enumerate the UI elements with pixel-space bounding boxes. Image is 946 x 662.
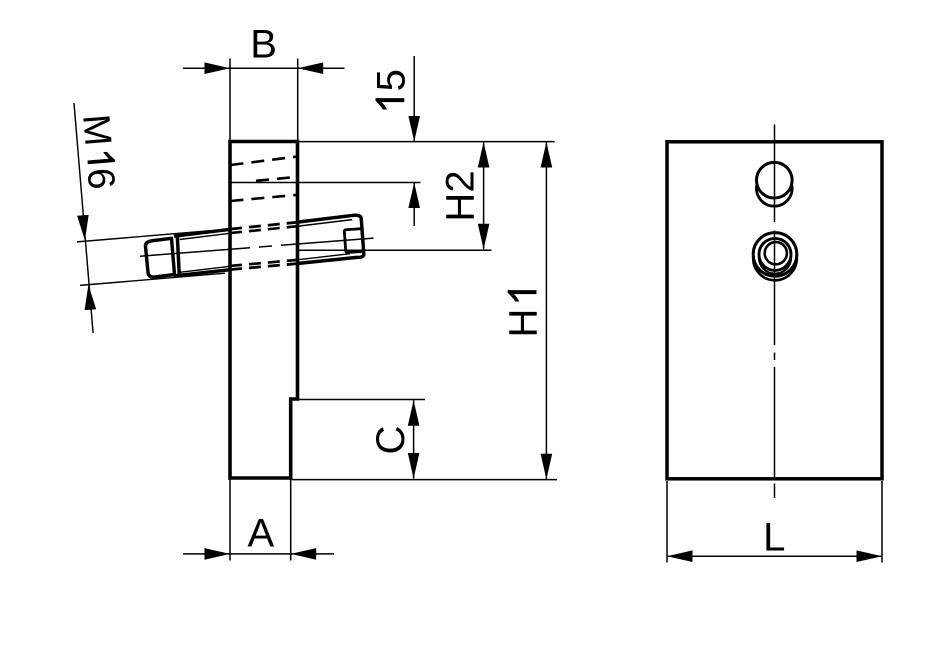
M16 arrow lower: [85, 285, 97, 310]
M16 dimension line: [74, 103, 93, 333]
H2 bottom extension line: [298, 249, 492, 251]
C arrow top: [408, 400, 420, 426]
L arrow right: [857, 550, 883, 562]
front view vertical centerline: [774, 125, 776, 223]
B extension line right: [297, 59, 299, 142]
H2 dimension line: [483, 142, 485, 249]
threaded hole middle exit arc: [759, 256, 791, 274]
thread root line left bottom: [180, 266, 231, 272]
H2 arrow bottom: [478, 224, 490, 250]
screw hidden thread root top: [230, 226, 299, 233]
H1 dimension line: [545, 142, 547, 479]
screw shaft outline left top: [174, 229, 231, 236]
A dimension line: [183, 553, 334, 555]
A arrow right: [291, 548, 317, 560]
svg-text:B: B: [250, 23, 277, 67]
bottom extension line: [292, 479, 557, 481]
svg-text:C: C: [369, 426, 413, 455]
label M16: [74, 113, 122, 191]
threaded hole middle circle: [759, 238, 791, 270]
screw shaft end face collar: [177, 236, 179, 276]
A extension line right: [290, 478, 292, 561]
15 dimension line lower tail: [413, 183, 415, 227]
label H1: [502, 290, 546, 337]
svg-text:6: 6: [79, 166, 123, 191]
B dimension line: [183, 67, 345, 69]
screw visible right portion outline: [299, 215, 364, 263]
svg-text:5: 5: [369, 69, 413, 91]
M16 extension line bottom: [80, 273, 225, 285]
L extension line left: [666, 481, 668, 563]
threaded hole outer circle: [753, 233, 797, 277]
threaded hole exit edge arc: [753, 256, 797, 280]
top edge extension line: [298, 141, 555, 143]
H1 arrow top: [541, 142, 553, 168]
15 arrow upper: [408, 116, 420, 142]
thread root line left top: [180, 233, 231, 239]
C top extension line: [298, 399, 425, 401]
B arrow left: [205, 62, 231, 74]
A extension line left: [229, 478, 231, 561]
svg-text:M: M: [74, 113, 118, 148]
svg-text:H: H: [502, 309, 546, 338]
M16 extension line top: [77, 231, 210, 242]
svg-text:H2: H2: [439, 170, 483, 221]
threaded hole inner circle: [765, 242, 787, 264]
screw hidden thread root bottom: [230, 260, 299, 266]
H1 arrow bottom: [541, 454, 553, 480]
screw square head: [145, 238, 174, 277]
15 arrow lower: [408, 183, 420, 209]
screw hidden thread crest bottom: [230, 264, 299, 270]
C arrow bottom: [408, 453, 420, 479]
svg-text:A: A: [247, 512, 274, 556]
svg-text:L: L: [763, 516, 785, 560]
upper hole exit edge arc: [756, 184, 792, 206]
front view rectangle: [667, 142, 882, 479]
block outline (side view): [230, 142, 298, 479]
L extension line right: [881, 481, 883, 563]
screw shaft outline left bottom: [174, 270, 231, 276]
B arrow right: [298, 62, 324, 74]
thread depth line (15 extension): [230, 182, 421, 184]
A arrow left: [205, 548, 231, 560]
M16 arrow upper: [77, 215, 89, 240]
upper hole hidden line 3: [231, 195, 298, 201]
thread root line right bottom: [299, 254, 351, 260]
thread root line right top: [299, 220, 353, 227]
screw slot at tip: [344, 229, 363, 253]
15 dimension line upper: [413, 56, 415, 142]
label 15: [369, 69, 413, 109]
upper hole hidden line 2: [256, 177, 298, 181]
H2 arrow top: [478, 142, 490, 168]
L arrow left: [667, 550, 693, 562]
screw axis centerline: [140, 248, 250, 257]
B extension line left: [229, 59, 231, 142]
upper hole hidden line 1: [231, 157, 298, 166]
upper hole circle: [757, 162, 793, 198]
C dimension line: [413, 400, 415, 478]
screw hidden thread crest top: [230, 222, 299, 229]
L dimension line: [667, 555, 882, 557]
